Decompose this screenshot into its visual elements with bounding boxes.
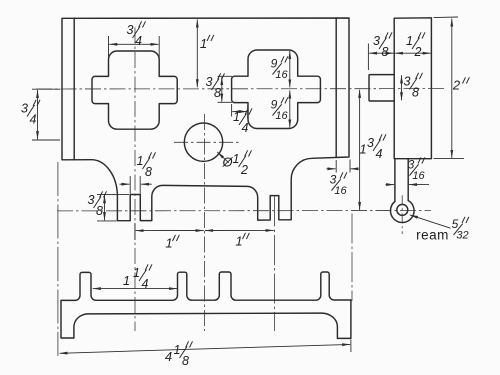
svg-text:4: 4 xyxy=(142,277,149,291)
dimension 1 1/4 tab spacing xyxy=(93,288,177,290)
dimension 3/4 left side xyxy=(32,88,60,90)
dimension 1/4 cross 2 step xyxy=(231,104,233,117)
dimension 3/8 side boss height xyxy=(401,75,403,100)
dimension 3/8 notch depth xyxy=(97,193,129,195)
dimension 9/16 upper xyxy=(289,51,291,87)
svg-text:3: 3 xyxy=(373,34,380,48)
svg-text:1: 1 xyxy=(133,266,140,280)
side view: stem right edge xyxy=(407,159,409,201)
svg-text:8: 8 xyxy=(412,86,419,100)
svg-text:16: 16 xyxy=(412,170,425,182)
svg-text:32: 32 xyxy=(456,230,468,242)
dimension 3/16 stem width xyxy=(386,184,395,186)
side view: boss tab xyxy=(369,75,394,101)
svg-text:1: 1 xyxy=(235,234,242,249)
svg-text:3: 3 xyxy=(404,75,411,89)
dimension 1 3/4 centerline to lug hole xyxy=(359,90,361,210)
svg-text:1: 1 xyxy=(174,343,181,357)
side view: body rectangle xyxy=(394,18,431,159)
svg-text:1: 1 xyxy=(359,142,366,157)
svg-text:1: 1 xyxy=(406,34,413,48)
dimension 3/4 cross 1 width xyxy=(108,36,110,59)
dimension 1/2 side body width xyxy=(395,52,431,54)
top view: right flange inner line xyxy=(335,18,337,157)
svg-text:16: 16 xyxy=(334,185,347,197)
svg-text:1: 1 xyxy=(137,154,144,168)
svg-text:8: 8 xyxy=(145,165,152,179)
vertical projection line right edge xyxy=(351,214,353,302)
dimension 1/8 notch width xyxy=(129,176,131,194)
svg-text:1: 1 xyxy=(165,236,172,251)
top view: plate outline with four bottom prongs xyxy=(62,18,349,221)
svg-text:4: 4 xyxy=(242,121,249,135)
svg-text:3: 3 xyxy=(88,193,95,207)
vertical centerline cross 1 xyxy=(134,28,136,332)
top view: left flange inner line xyxy=(73,18,75,159)
svg-text:16: 16 xyxy=(275,69,288,81)
svg-text:4: 4 xyxy=(165,349,172,364)
dimension 1 inch prong spacing right xyxy=(205,229,274,231)
svg-text:4: 4 xyxy=(376,147,383,161)
leader and label ream 5/32 xyxy=(410,215,451,228)
svg-text:1: 1 xyxy=(200,36,207,51)
dimension 4 1/8 overall width xyxy=(350,340,352,353)
cross-shaped cutout 1 xyxy=(92,51,177,129)
cross-shaped cutout 2 xyxy=(232,50,321,129)
svg-text:1: 1 xyxy=(233,152,240,166)
dimension 3/16 right flange thickness xyxy=(335,160,337,173)
svg-text:4: 4 xyxy=(30,113,37,127)
svg-text:ream: ream xyxy=(416,228,449,243)
dimension 1 inch prong spacing left xyxy=(134,223,136,240)
vertical projection line right notch xyxy=(273,197,275,332)
side view: lug rounded end xyxy=(390,201,414,223)
horizontal centerline through crosses xyxy=(36,88,444,90)
vertical centerline circle / part center xyxy=(203,114,205,331)
dimension 3/8 side boss width xyxy=(367,44,369,71)
svg-text:4: 4 xyxy=(135,34,142,48)
svg-text:2: 2 xyxy=(452,78,461,93)
svg-text:8: 8 xyxy=(96,204,103,218)
front view: base bar outline with four tabs xyxy=(61,272,351,338)
leader and label dia 1/2 hole xyxy=(217,152,229,163)
svg-text:3: 3 xyxy=(127,23,134,37)
svg-text:8: 8 xyxy=(382,45,389,59)
svg-text:3: 3 xyxy=(21,102,28,116)
svg-text:3: 3 xyxy=(367,136,374,150)
dimension 2 inch side height xyxy=(434,16,459,19)
svg-text:8: 8 xyxy=(214,86,221,100)
center hole circle xyxy=(184,123,222,161)
svg-text:2: 2 xyxy=(240,163,248,177)
vertical projection line left edge xyxy=(57,162,59,356)
horizontal centerline through prongs and lug hole xyxy=(57,210,431,212)
dimension 1 inch top edge to centerline xyxy=(196,20,198,88)
dimension 3/8 cross 2 arm xyxy=(218,75,233,77)
svg-text:3: 3 xyxy=(206,75,213,89)
horizontal centerline through circle xyxy=(174,141,240,143)
vertical centerline lug hole xyxy=(401,195,403,234)
svg-text:16: 16 xyxy=(275,110,288,122)
side view: stem left edge xyxy=(394,159,396,202)
svg-text:1: 1 xyxy=(233,110,240,124)
svg-text:1: 1 xyxy=(123,273,130,288)
svg-text:8: 8 xyxy=(182,354,189,368)
svg-text:2: 2 xyxy=(414,45,422,59)
dimension 9/16 lower xyxy=(289,90,291,127)
side view: reamed hole xyxy=(397,204,408,215)
